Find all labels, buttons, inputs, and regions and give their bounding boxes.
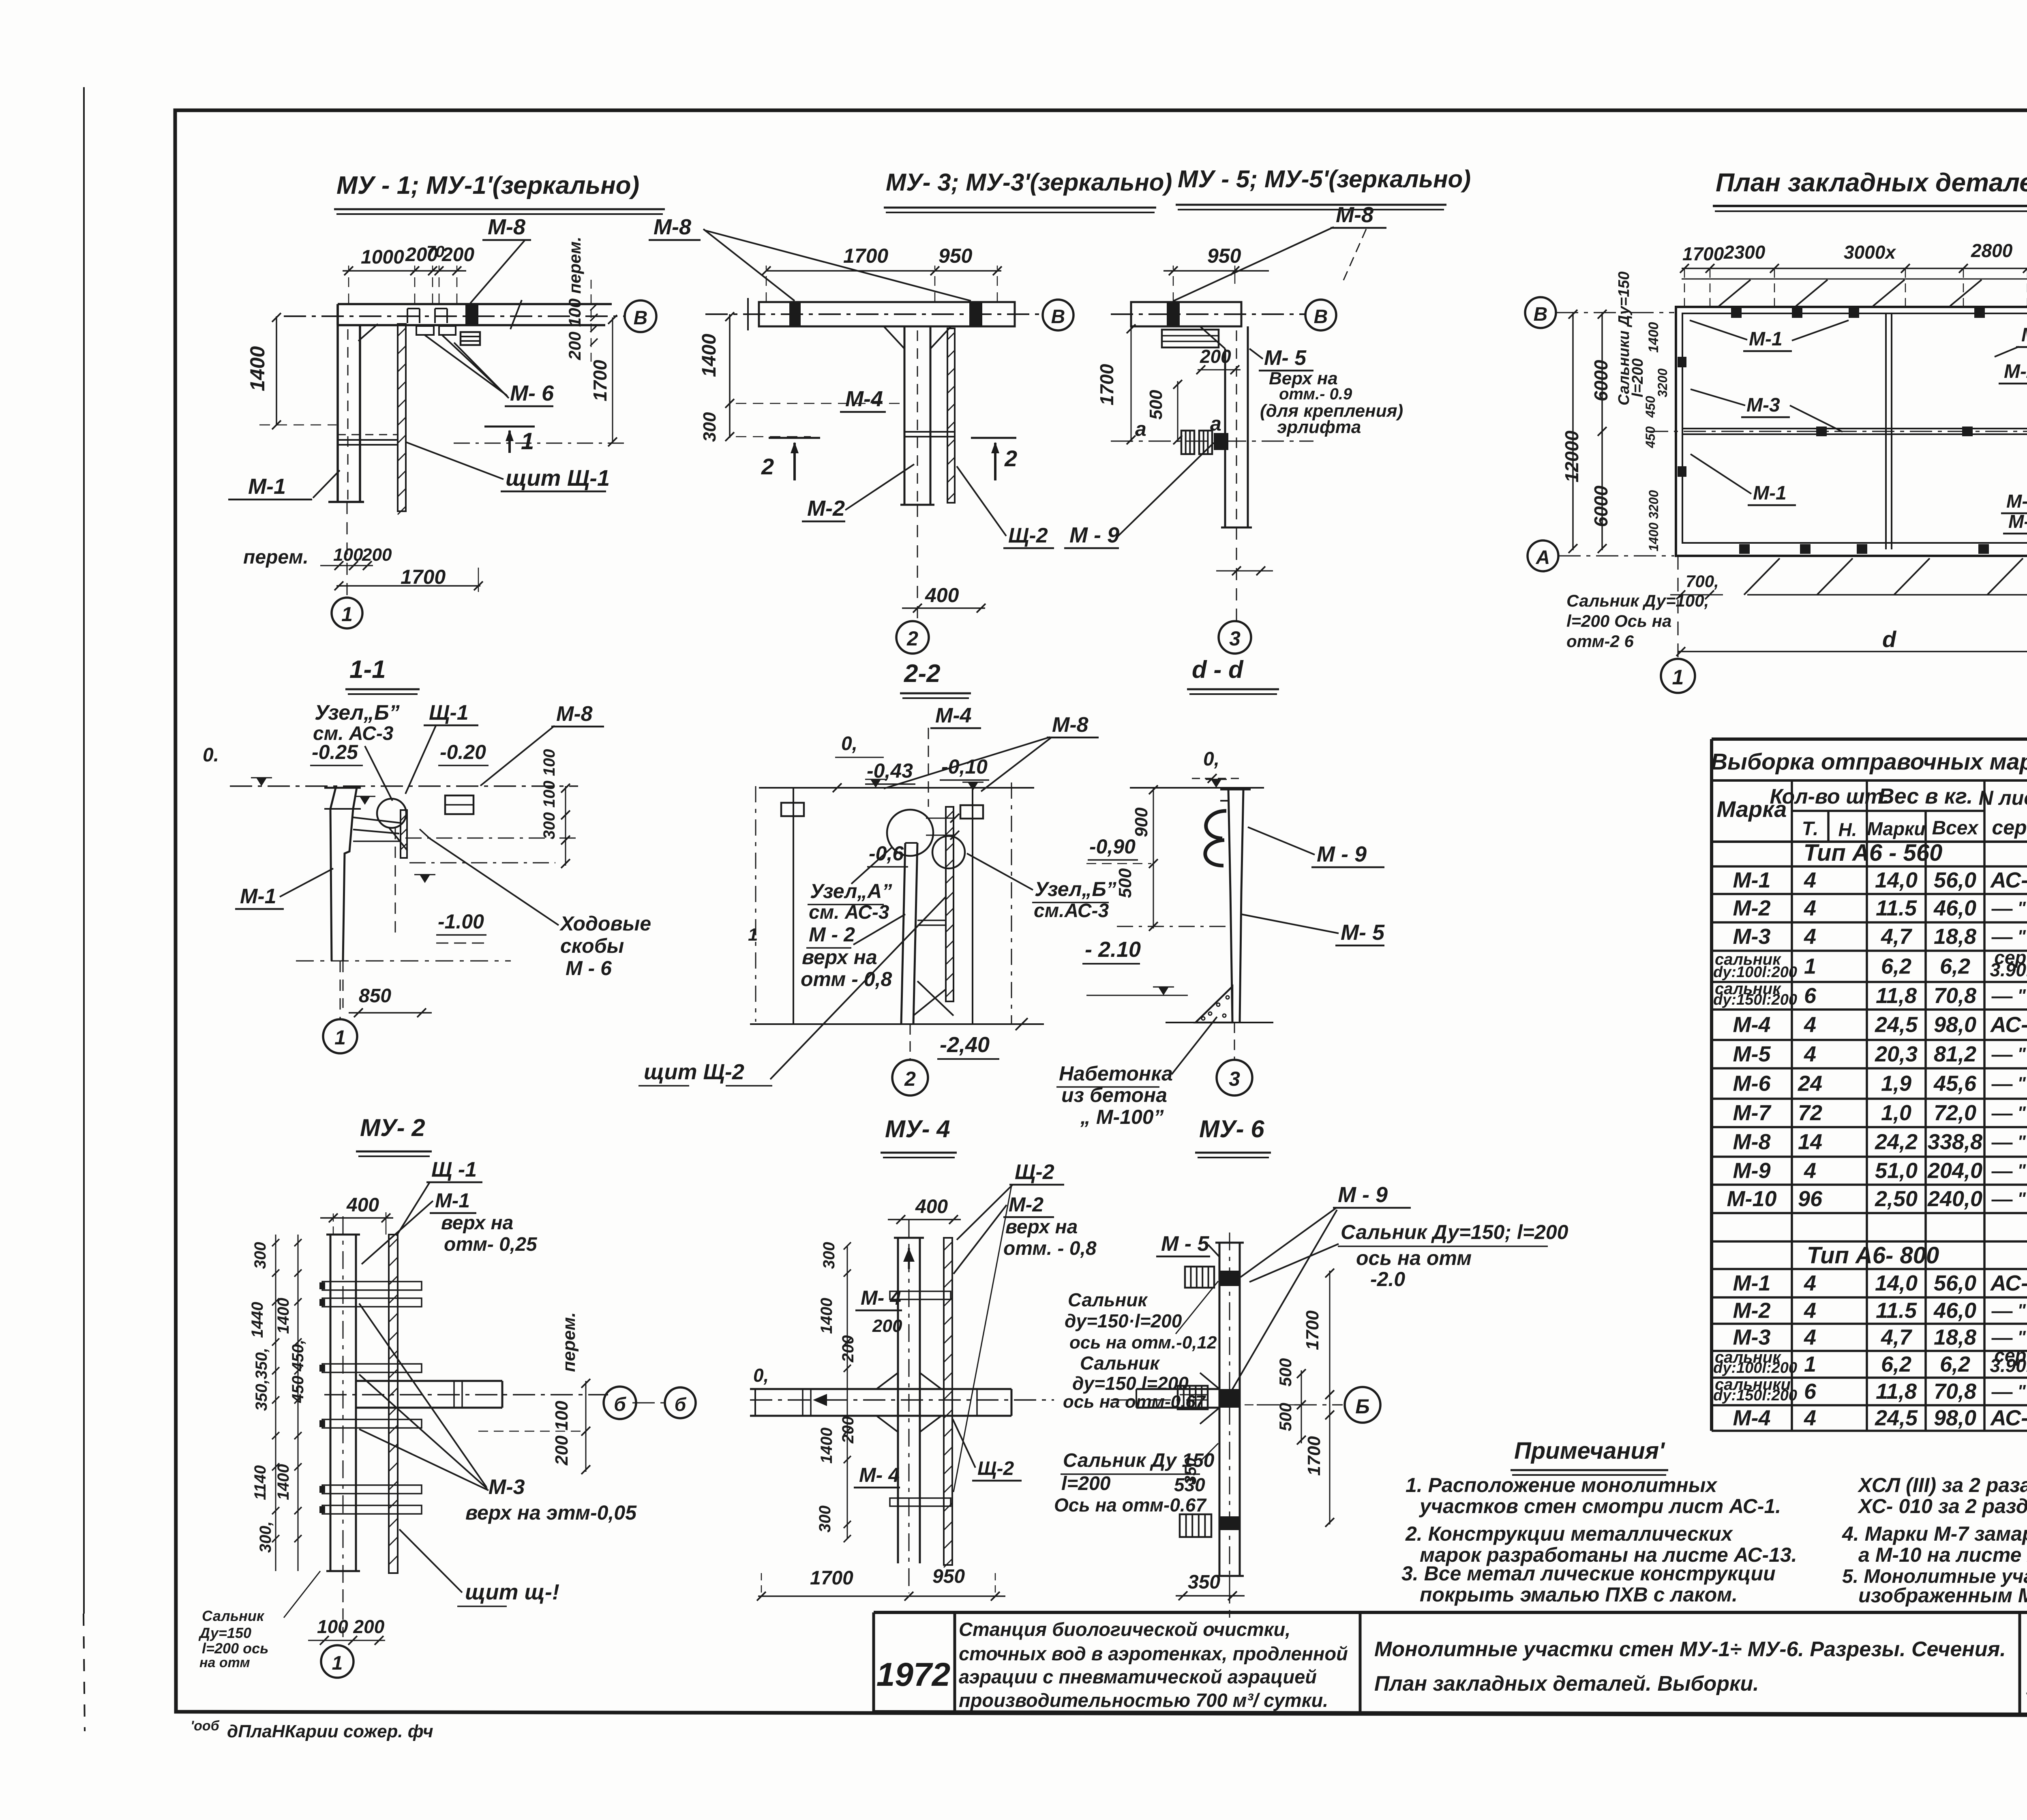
svg-text:МУ - 5; МУ-5'(зеркально): МУ - 5; МУ-5'(зеркально): [1178, 165, 1471, 193]
svg-text:Ходовые: Ходовые: [559, 912, 651, 935]
svg-text:": ": [2017, 1189, 2026, 1209]
svg-text:0,: 0,: [753, 1365, 769, 1386]
svg-text:6,2: 6,2: [1940, 954, 1970, 979]
svg-text:": ": [2017, 1103, 2026, 1123]
svg-text:6000: 6000: [1590, 485, 1611, 527]
svg-text:70,8: 70,8: [1934, 984, 1976, 1008]
svg-text:450: 450: [1643, 426, 1658, 448]
svg-text:700,: 700,: [1686, 572, 1719, 591]
svg-text:11.5: 11.5: [1876, 1299, 1917, 1323]
svg-text:М-1: М-1: [1733, 868, 1771, 892]
svg-text:Кол-во шт.: Кол-во шт.: [1770, 785, 1889, 808]
svg-text:М-2: М-2: [1733, 896, 1771, 920]
svg-text:51,0: 51,0: [1875, 1159, 1918, 1183]
svg-text:l=200: l=200: [1629, 358, 1646, 397]
svg-text:0,: 0,: [841, 733, 857, 755]
svg-text:План закладных деталей.: План закладных деталей.: [1716, 168, 2027, 197]
svg-text:2: 2: [906, 627, 918, 650]
svg-text:3200: 3200: [1646, 490, 1661, 519]
svg-text:верх на: верх на: [1005, 1216, 1078, 1238]
svg-text:1700: 1700: [843, 244, 888, 267]
svg-text:М-7: М-7: [1733, 1101, 1772, 1125]
svg-text:1400: 1400: [274, 1298, 292, 1334]
svg-text:Щ-2: Щ-2: [1008, 524, 1048, 547]
svg-text:2-2: 2-2: [904, 660, 941, 688]
svg-text:-2.0: -2.0: [1370, 1268, 1405, 1291]
svg-text:0,: 0,: [1203, 748, 1219, 770]
svg-text:АС-13: АС-13: [1990, 1406, 2027, 1430]
svg-text:200: 200: [839, 1335, 857, 1363]
svg-text:отм. - 0,8: отм. - 0,8: [1003, 1238, 1097, 1259]
svg-text:-2,40: -2,40: [940, 1033, 990, 1057]
svg-text:-0,43: -0,43: [867, 759, 913, 782]
svg-text:400: 400: [925, 584, 959, 607]
svg-text:Марки: Марки: [1867, 818, 1926, 839]
svg-text:1700: 1700: [1303, 1310, 1322, 1350]
svg-text:на отм: на отм: [199, 1655, 250, 1670]
svg-text:М-8: М-8: [1052, 713, 1088, 737]
svg-text:dу:150l:200: dу:150l:200: [1713, 1387, 1797, 1404]
svg-text:Сальник Ду=150; l=200: Сальник Ду=150; l=200: [1341, 1221, 1568, 1243]
svg-text:верх на этм-0,05: верх на этм-0,05: [465, 1501, 637, 1524]
svg-text:500: 500: [1146, 390, 1166, 420]
svg-text:М-5: М-5: [1733, 1042, 1771, 1066]
svg-text:72: 72: [1798, 1101, 1822, 1125]
svg-text:1,9: 1,9: [1881, 1072, 1911, 1096]
svg-text:3.901-5: 3.901-5: [1990, 1355, 2027, 1376]
svg-text:Б: Б: [1355, 1395, 1369, 1418]
svg-text:4: 4: [1804, 868, 1816, 892]
svg-text:М-2: М-2: [2004, 361, 2027, 382]
svg-text:М-4: М-4: [1733, 1013, 1771, 1037]
svg-text:72,0: 72,0: [1934, 1101, 1976, 1125]
svg-text:Ду=150: Ду=150: [198, 1625, 251, 1641]
svg-text:дПлаНКарии сожер. фч: дПлаНКарии сожер. фч: [227, 1721, 433, 1741]
svg-text:4: 4: [1804, 1042, 1816, 1066]
svg-text:'ооб: 'ооб: [191, 1718, 220, 1734]
svg-text:1700: 1700: [401, 566, 446, 588]
svg-text:Ось на отм-0.67: Ось на отм-0.67: [1054, 1494, 1207, 1516]
svg-text:902 - 2 -154: 902 - 2 -154: [2025, 1667, 2027, 1706]
svg-text:dу:150l:200: dу:150l:200: [1713, 991, 1797, 1008]
svg-text:1400: 1400: [274, 1464, 292, 1500]
svg-text:М - 2: М - 2: [809, 923, 855, 946]
svg-text:МУ- 2: МУ- 2: [360, 1114, 425, 1141]
svg-text:ось на отм: ось на отм: [1356, 1247, 1472, 1269]
svg-text:6000: 6000: [1590, 360, 1611, 401]
svg-text:": ": [2017, 926, 2026, 946]
svg-text:М-3: М-3: [1746, 394, 1780, 416]
svg-text:Монолитные участки стен МУ-1: Монолитные участки стен МУ-1÷ МУ-6. Разр…: [1374, 1638, 2006, 1661]
svg-text:АС-13: АС-13: [1990, 1271, 2027, 1295]
svg-text:1: 1: [1804, 954, 1816, 979]
svg-text:производительностью 700 м³/: производительностью 700 м³/ сутки.: [959, 1689, 1328, 1711]
svg-text:0.: 0.: [203, 744, 219, 766]
svg-text:4: 4: [1804, 1299, 1816, 1323]
svg-text:1140: 1140: [251, 1465, 269, 1500]
svg-text:М- 5: М- 5: [1264, 346, 1307, 370]
svg-text:": ": [2017, 1301, 2026, 1321]
svg-text:850: 850: [359, 985, 391, 1007]
svg-text:3: 3: [1229, 627, 1241, 650]
svg-text:46,0: 46,0: [1933, 1299, 1976, 1323]
svg-text:2300: 2300: [1723, 242, 1766, 263]
svg-text:М-1: М-1: [1733, 1271, 1771, 1295]
svg-text:6,2: 6,2: [1881, 954, 1911, 979]
svg-text:Набетонка: Набетонка: [1059, 1062, 1173, 1085]
svg-text:М- 4: М- 4: [859, 1464, 900, 1486]
svg-text:3.901-5: 3.901-5: [1990, 959, 2027, 980]
svg-text:N листа: N листа: [1979, 787, 2027, 809]
svg-text:„ М-100”: „ М-100”: [1080, 1106, 1164, 1128]
svg-text:400: 400: [915, 1196, 948, 1218]
svg-text:верх на: верх на: [802, 946, 877, 969]
svg-text:-1.00: -1.00: [438, 910, 484, 933]
svg-text:1700: 1700: [810, 1567, 853, 1589]
svg-text:М-8: М-8: [654, 215, 691, 239]
svg-text:4: 4: [1804, 1325, 1816, 1350]
svg-text:d - d: d - d: [1192, 656, 1244, 683]
svg-text:М-1: М-1: [248, 474, 286, 499]
svg-text:": ": [2017, 1161, 2026, 1181]
svg-text:4: 4: [1804, 1159, 1816, 1183]
svg-text:М-2: М-2: [1733, 1299, 1771, 1323]
svg-text:б: б: [675, 1394, 687, 1415]
svg-text:АС-13: АС-13: [1990, 868, 2027, 892]
svg-text:200: 200: [362, 545, 392, 565]
svg-text:dу:100l:200: dу:100l:200: [1713, 1359, 1797, 1376]
svg-text:24,2: 24,2: [1875, 1130, 1918, 1154]
svg-text:6,2: 6,2: [1940, 1352, 1970, 1376]
svg-text:1,0: 1,0: [1881, 1101, 1911, 1125]
svg-text:1700: 1700: [1096, 364, 1117, 405]
svg-text:М- 5: М- 5: [1341, 920, 1385, 945]
svg-text:500: 500: [1115, 868, 1135, 898]
svg-text:350: 350: [1182, 1458, 1200, 1485]
svg-text:200: 200: [1200, 346, 1231, 367]
svg-text:2: 2: [904, 1068, 916, 1090]
svg-text:М - 6: М - 6: [566, 957, 612, 980]
svg-text:М-8: М-8: [1336, 203, 1373, 227]
svg-text:6,2: 6,2: [1881, 1352, 1911, 1376]
svg-text:М- 4: М- 4: [2021, 324, 2027, 346]
svg-text:М-1: М-1: [435, 1189, 470, 1212]
svg-text:14,0: 14,0: [1875, 1271, 1918, 1295]
svg-text:200 100: 200 100: [552, 1400, 572, 1466]
svg-text:М-8: М-8: [1733, 1130, 1771, 1154]
svg-text:": ": [2017, 898, 2026, 918]
svg-text:Сальник: Сальник: [202, 1608, 265, 1624]
svg-text:М-4: М-4: [2008, 511, 2027, 532]
svg-text:Щ-2: Щ-2: [977, 1458, 1014, 1479]
svg-text:11,8: 11,8: [1876, 1379, 1917, 1404]
svg-text:1440: 1440: [249, 1302, 266, 1338]
svg-text:М-2: М-2: [2006, 491, 2027, 512]
svg-text:14,0: 14,0: [1875, 868, 1918, 892]
svg-text:М-3: М-3: [489, 1475, 525, 1499]
svg-text:В: В: [1314, 306, 1328, 328]
svg-text:- 2.10: - 2.10: [1085, 937, 1141, 962]
svg-text:450 450,: 450 450,: [289, 1340, 307, 1403]
svg-text:Узел„Б”: Узел„Б”: [315, 701, 400, 725]
svg-text:скобы: скобы: [560, 935, 624, 957]
svg-text:300: 300: [816, 1505, 834, 1533]
svg-text:1400: 1400: [699, 334, 720, 377]
svg-text:4: 4: [1804, 1271, 1816, 1295]
svg-text:М-8: М-8: [556, 702, 593, 726]
svg-text:11,8: 11,8: [1876, 984, 1917, 1008]
svg-text:300: 300: [700, 412, 720, 442]
svg-text:М-9: М-9: [1733, 1159, 1771, 1183]
svg-text:1: 1: [521, 428, 534, 454]
svg-text:200: 200: [441, 244, 474, 266]
svg-text:Щ-2: Щ-2: [1015, 1160, 1054, 1184]
svg-text:Щ -1: Щ -1: [431, 1158, 477, 1181]
svg-text:покрыть эмалью ПХВ с лако: покрыть эмалью ПХВ с лаком.: [1420, 1583, 1738, 1606]
svg-text:В: В: [1534, 304, 1548, 325]
svg-text:Сальник Ду=100,: Сальник Ду=100,: [1566, 591, 1709, 610]
svg-text:щит Щ-2: щит Щ-2: [644, 1060, 744, 1084]
svg-text:24,5: 24,5: [1875, 1013, 1918, 1037]
svg-text:отм.- 0.9: отм.- 0.9: [1279, 385, 1352, 403]
svg-text:": ": [2017, 1132, 2026, 1152]
svg-text:Т.: Т.: [1802, 818, 1819, 840]
svg-text:3000х: 3000х: [1844, 242, 1896, 263]
svg-text:М-3: М-3: [1733, 924, 1771, 949]
svg-text:18,8: 18,8: [1934, 924, 1976, 949]
svg-text:А: А: [1536, 547, 1550, 568]
svg-text:МУ- 3; МУ-3'(зеркально): МУ- 3; МУ-3'(зеркально): [886, 169, 1172, 196]
svg-text:-0.20: -0.20: [440, 741, 486, 763]
svg-text:ось на отм.-0,12: ось на отм.-0,12: [1069, 1333, 1217, 1353]
svg-text:М-4: М-4: [1733, 1406, 1771, 1430]
svg-text:М-4: М-4: [845, 387, 883, 411]
svg-text:450: 450: [1643, 396, 1658, 418]
svg-text:М - 5: М - 5: [1161, 1232, 1210, 1256]
svg-text:56,0: 56,0: [1934, 1271, 1976, 1295]
svg-text:d: d: [1882, 626, 1897, 652]
svg-text:изображенным МУ-1; МУ-3; МУ-5: изображенным МУ-1; МУ-3; МУ-5.: [1858, 1584, 2027, 1607]
svg-text:240,0: 240,0: [1927, 1187, 1982, 1211]
svg-text:350,350,: 350,350,: [253, 1348, 270, 1411]
svg-text:1400: 1400: [1646, 322, 1661, 353]
svg-text:-0,10: -0,10: [941, 755, 988, 778]
svg-text:ХСЛ (III) за 2 раза по о: ХСЛ (III) за 2 раза по огрунтовке: [1857, 1474, 2027, 1496]
svg-text:ду=150·l=200: ду=150·l=200: [1065, 1310, 1182, 1331]
svg-text:Станция биологической очис: Станция биологической очистки,: [959, 1618, 1290, 1640]
svg-text:1-1: 1-1: [349, 656, 386, 684]
svg-text:отм-2 6: отм-2 6: [1566, 632, 1634, 651]
svg-text:": ": [2017, 1074, 2026, 1093]
svg-text:перем.: перем.: [243, 547, 309, 568]
svg-text:12000: 12000: [1561, 431, 1582, 482]
svg-text:70,8: 70,8: [1934, 1379, 1976, 1404]
svg-text:4: 4: [1804, 924, 1816, 949]
svg-text:АС-13: АС-13: [1990, 1013, 2027, 1037]
svg-text:l=200: l=200: [1061, 1473, 1111, 1494]
svg-text:950: 950: [939, 244, 973, 267]
svg-text:1700: 1700: [1304, 1436, 1324, 1476]
svg-text:300 100 100: 300 100 100: [540, 749, 558, 839]
svg-text:98,0: 98,0: [1934, 1406, 1976, 1430]
svg-text:500: 500: [1276, 1403, 1295, 1431]
svg-text:1: 1: [1804, 1352, 1816, 1376]
svg-text:Щ-1: Щ-1: [429, 701, 469, 725]
svg-text:аэрации с пневматической аэра: аэрации с пневматической аэрацией: [959, 1666, 1317, 1687]
svg-text:из бетона: из бетона: [1061, 1084, 1167, 1106]
svg-text:М-1: М-1: [1753, 482, 1787, 504]
svg-text:М - 9: М - 9: [1338, 1183, 1388, 1207]
svg-text:М - 9: М - 9: [1317, 842, 1367, 866]
svg-text:4,7: 4,7: [1881, 1325, 1913, 1350]
svg-text:эрлифта: эрлифта: [1277, 417, 1361, 437]
svg-text:2. Конструкции металлических: 2. Конструкции металлических: [1405, 1522, 1733, 1545]
svg-text:4: 4: [1804, 1406, 1816, 1430]
svg-text:45,6: 45,6: [1933, 1072, 1977, 1096]
svg-text:М-10: М-10: [1727, 1187, 1776, 1211]
svg-text:1972: 1972: [876, 1656, 950, 1693]
svg-text:300: 300: [820, 1242, 838, 1269]
svg-text:1: 1: [341, 603, 353, 626]
svg-text:Тип А6- 800: Тип А6- 800: [1807, 1242, 1939, 1269]
svg-text:Сальник: Сальник: [1068, 1289, 1148, 1310]
svg-text:3200: 3200: [1655, 369, 1670, 397]
svg-text:100 200: 100 200: [317, 1616, 385, 1637]
svg-text:Узел„Б”: Узел„Б”: [1035, 878, 1116, 900]
svg-text:": ": [2017, 1044, 2026, 1064]
svg-text:3: 3: [1229, 1068, 1240, 1090]
svg-text:200 100 перем.: 200 100 перем.: [565, 237, 584, 360]
svg-text:М-1: М-1: [240, 885, 276, 908]
svg-text:200: 200: [839, 1416, 857, 1444]
svg-text:": ": [2017, 1381, 2026, 1401]
svg-text:300,: 300,: [257, 1521, 274, 1553]
svg-text:46,0: 46,0: [1933, 896, 1976, 920]
svg-text:4,7: 4,7: [1881, 924, 1913, 949]
svg-text:серия: серия: [1992, 816, 2027, 839]
svg-text:верх на: верх на: [441, 1212, 513, 1234]
svg-text:100: 100: [333, 545, 363, 565]
svg-text:350: 350: [1188, 1571, 1220, 1593]
svg-text:24,5: 24,5: [1875, 1406, 1918, 1430]
svg-text:500: 500: [1276, 1358, 1295, 1387]
svg-text:М-2: М-2: [1009, 1193, 1043, 1216]
svg-text:l=200 Ось на: l=200 Ось на: [1566, 611, 1671, 630]
svg-text:338,8: 338,8: [1928, 1130, 1982, 1154]
svg-text:204,0: 204,0: [1927, 1159, 1982, 1183]
svg-text:щит Щ-1: щит Щ-1: [506, 465, 610, 491]
svg-text:18,8: 18,8: [1934, 1325, 1976, 1350]
svg-text:М- 6: М- 6: [510, 381, 554, 405]
svg-text:1400: 1400: [818, 1428, 836, 1464]
svg-text:6: 6: [1804, 1379, 1817, 1404]
svg-text:4. Марки М-7 замаркированы н: 4. Марки М-7 замаркированы на листе АС-3…: [1842, 1522, 2027, 1545]
svg-text:-0,6: -0,6: [869, 842, 904, 865]
svg-text:М-8: М-8: [488, 215, 525, 239]
svg-text:см. АС-3: см. АС-3: [809, 902, 889, 923]
svg-text:сточных вод в аэротенках, прод: сточных вод в аэротенках, продленной: [959, 1643, 1348, 1664]
svg-text:56,0: 56,0: [1934, 868, 1976, 892]
svg-text:щит щ-!: щит щ-!: [465, 1580, 559, 1604]
svg-text:участков стен смотри лист: участков стен смотри лист АС-1.: [1418, 1495, 1781, 1518]
svg-text:l=200 ось: l=200 ось: [202, 1640, 268, 1657]
svg-text:Примечания': Примечания': [1514, 1438, 1665, 1464]
svg-text:-0.25: -0.25: [312, 741, 358, 763]
svg-text:отм- 0,25: отм- 0,25: [444, 1234, 538, 1255]
svg-text:900: 900: [1131, 807, 1151, 837]
svg-text:6: 6: [1804, 984, 1817, 1008]
svg-text:14: 14: [1798, 1130, 1822, 1154]
svg-text:а М-10 на листе АС- 12.: а М-10 на листе АС- 12.: [1858, 1543, 2027, 1566]
svg-text:2,50: 2,50: [1875, 1187, 1918, 1211]
svg-text:М - 9: М - 9: [1069, 523, 1119, 547]
svg-text:1400: 1400: [818, 1298, 836, 1334]
svg-text:В: В: [634, 307, 648, 329]
svg-text:1. Расположение монолитны: 1. Расположение монолитных: [1406, 1474, 1718, 1496]
svg-text:1: 1: [334, 1026, 346, 1049]
svg-text:1: 1: [748, 925, 758, 945]
svg-text:М-2: М-2: [807, 496, 845, 521]
svg-text:МУ - 1; МУ-1'(зеркально): МУ - 1; МУ-1'(зеркально): [336, 171, 639, 199]
svg-text:11.5: 11.5: [1876, 896, 1917, 920]
svg-text:Вес в кг.: Вес в кг.: [1879, 784, 1973, 808]
svg-text:24: 24: [1798, 1072, 1822, 1096]
svg-text:ХС- 010 за 2 разд: ХС- 010 за 2 разд: [1857, 1495, 2027, 1518]
svg-text:1400: 1400: [1646, 523, 1661, 551]
svg-text:950: 950: [1207, 244, 1241, 267]
svg-text:1700: 1700: [1682, 243, 1724, 264]
svg-text:1000: 1000: [361, 247, 404, 268]
svg-text:": ": [2017, 986, 2026, 1005]
svg-text:ду=150 l=200: ду=150 l=200: [1072, 1373, 1189, 1394]
svg-text:В: В: [1051, 306, 1065, 328]
svg-text:": ": [2017, 1327, 2026, 1347]
svg-text:отм - 0,8: отм - 0,8: [801, 968, 892, 990]
svg-text:М- 4: М- 4: [861, 1286, 901, 1309]
svg-text:1: 1: [332, 1653, 343, 1674]
svg-text:3. Все метал лические конс: 3. Все метал лические конструкции: [1401, 1562, 1776, 1585]
svg-text:950: 950: [932, 1566, 965, 1587]
svg-text:Тип А6 - 560: Тип А6 - 560: [1804, 840, 1943, 866]
svg-text:М-1: М-1: [1749, 328, 1783, 350]
svg-text:96: 96: [1798, 1187, 1823, 1211]
svg-text:План закладных деталей. Вы: План закладных деталей. Выборки.: [1374, 1672, 1759, 1696]
svg-text:1400: 1400: [246, 346, 269, 391]
svg-text:М-4: М-4: [935, 704, 972, 727]
svg-text:М-6: М-6: [1733, 1072, 1771, 1096]
svg-text:-0,90: -0,90: [1089, 835, 1136, 858]
svg-text:М-3: М-3: [1733, 1325, 1771, 1350]
svg-text:2: 2: [1004, 446, 1017, 471]
svg-text:2: 2: [761, 454, 774, 479]
svg-text:1: 1: [1672, 666, 1684, 689]
svg-text:б: б: [614, 1394, 626, 1415]
svg-text:а: а: [1135, 418, 1146, 440]
svg-text:4: 4: [1804, 896, 1816, 920]
svg-text:98,0: 98,0: [1934, 1013, 1976, 1037]
svg-text:2800: 2800: [1971, 240, 2013, 261]
svg-text:МУ- 6: МУ- 6: [1199, 1115, 1264, 1143]
svg-text:МУ- 4: МУ- 4: [885, 1115, 950, 1143]
svg-text:200: 200: [872, 1316, 902, 1336]
svg-text:Сальник: Сальник: [1080, 1353, 1160, 1374]
svg-text:81,2: 81,2: [1934, 1042, 1976, 1066]
svg-text:Всех: Всех: [1932, 817, 1979, 839]
svg-text:dу:100l:200: dу:100l:200: [1713, 964, 1797, 981]
svg-text:20,3: 20,3: [1875, 1042, 1918, 1066]
svg-text:1700: 1700: [589, 360, 611, 401]
svg-text:см.АС-3: см.АС-3: [1034, 900, 1109, 922]
